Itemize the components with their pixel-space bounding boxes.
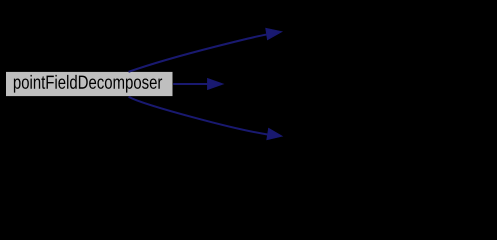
edge from pointFieldDecomposer to middle node [173,78,223,90]
wire: straight segment to middle node [173,83,208,85]
wire: spline to bottom node [129,97,268,135]
edge from pointFieldDecomposer to top node [129,28,283,72]
edge from pointFieldDecomposer to bottom node [129,97,283,140]
wire: spline to top node [129,35,267,72]
node pointFieldDecomposer [6,72,173,96]
node label "pointFieldDecomposer" [14,75,162,93]
arrowhead: bottom edge [267,128,283,140]
arrowhead: middle edge [207,78,223,90]
node box pointFieldDecomposer [6,72,173,96]
arrowhead: top edge [266,28,283,40]
